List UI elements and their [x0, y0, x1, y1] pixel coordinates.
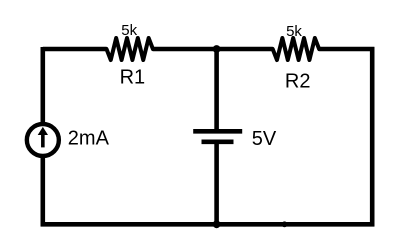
svg-text:R1: R1 [120, 67, 146, 89]
resistor R1 [107, 38, 153, 60]
svg-text:5V: 5V [252, 128, 277, 150]
svg-text:5k: 5k [286, 23, 302, 40]
battery V1 top plate [193, 129, 242, 134]
wire left lower (current source to bottom) [40, 158, 45, 227]
current source I1 (circle) [27, 124, 59, 156]
resistor R2 [273, 38, 319, 60]
svg-text:R2: R2 [285, 70, 311, 92]
wire top-middle (R1 to R2 through node) [153, 47, 273, 52]
svg-text:2mA: 2mA [68, 128, 110, 150]
current source I1 arrow shaft [41, 134, 45, 148]
node bottom wire joint [282, 221, 288, 227]
wire right side [370, 47, 375, 226]
battery V1 bottom plate [202, 140, 234, 145]
wire left upper (corner to current source) [40, 47, 45, 123]
node bottom junction [213, 220, 221, 228]
wire top-left (corner to R1) [43, 47, 107, 52]
node top junction [213, 45, 221, 53]
current source I1 arrow head [38, 127, 48, 135]
svg-text:5k: 5k [121, 22, 137, 39]
wire middle upper (node to battery) [214, 49, 219, 131]
wire middle lower (battery to bottom node) [214, 142, 219, 225]
wire top-right (R2 to corner) [319, 47, 374, 52]
wire bottom [41, 222, 375, 227]
